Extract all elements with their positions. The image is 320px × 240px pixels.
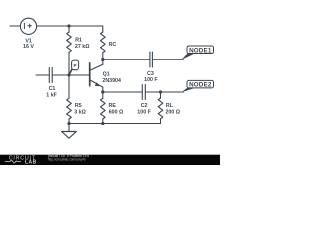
svg-text:R5: R5: [75, 103, 82, 109]
label R5 value: [74, 103, 86, 115]
wire C1 to Q1 base: [53, 74, 90, 76]
wire C2 to NODE2: [146, 91, 184, 93]
resistor R5: [67, 75, 72, 124]
svg-text:RC: RC: [109, 42, 117, 48]
svg-text:600 Ω: 600 Ω: [109, 109, 124, 115]
svg-text:P: P: [74, 63, 77, 68]
wire collector node to C3: [103, 59, 150, 61]
wire C3 to NODE1: [153, 59, 183, 61]
ground: [62, 124, 77, 139]
resistor RC: [101, 26, 106, 60]
svg-text:R1: R1: [75, 37, 82, 43]
svg-text:C2: C2: [141, 103, 148, 109]
label C1 value: [46, 86, 57, 98]
footer logo CircuitLab: [5, 155, 37, 165]
voltage source V1: [20, 18, 36, 34]
svg-text:3 kΩ: 3 kΩ: [74, 109, 86, 115]
svg-text:100 F: 100 F: [144, 77, 158, 83]
wire bottom rail: [69, 123, 161, 125]
label R1 value: [75, 37, 90, 50]
svg-text:RL: RL: [166, 103, 174, 109]
label V1 value: [23, 39, 34, 51]
node flag NODE2: [181, 80, 213, 92]
svg-text:200 Ω: 200 Ω: [165, 109, 180, 115]
wire V1 left stub: [10, 25, 20, 27]
svg-text:NODE1: NODE1: [189, 47, 212, 54]
resistor RE: [101, 92, 106, 124]
label Q1 value: [102, 72, 121, 84]
svg-text:1 kF: 1 kF: [46, 93, 57, 99]
label C2 value: [137, 103, 151, 115]
svg-text:27 kΩ: 27 kΩ: [75, 44, 90, 50]
node flag NODE1: [181, 46, 213, 60]
wire top rail V1 to RC: [37, 25, 103, 27]
svg-text:16 V: 16 V: [23, 44, 34, 50]
node junction ground: [67, 122, 70, 125]
label C3 value: [144, 71, 158, 83]
wire emitter to C2: [103, 91, 142, 93]
label RE value: [109, 103, 125, 115]
svg-text:http://circuitlab.com/cmq4h: http://circuitlab.com/cmq4h: [48, 158, 86, 162]
capacitor C1: [36, 68, 52, 83]
label RL value: [165, 103, 180, 115]
svg-text:RE: RE: [109, 103, 117, 109]
node emitter junction: [101, 90, 104, 93]
svg-text:C1: C1: [49, 86, 56, 92]
node junction RE bottom: [101, 122, 104, 125]
node base junction: [67, 73, 70, 76]
resistor RL: [158, 92, 163, 124]
svg-text:Q1: Q1: [103, 72, 110, 78]
footer bar: [0, 155, 220, 165]
transistor Q1: [90, 60, 103, 93]
node collector junction: [101, 58, 104, 61]
resistor R1: [67, 26, 72, 75]
svg-text:2N3904: 2N3904: [102, 78, 121, 84]
svg-text:LAB: LAB: [25, 159, 37, 165]
svg-text:100 F: 100 F: [137, 109, 151, 115]
capacitor C3: [150, 52, 153, 67]
node junction R1 top: [67, 24, 70, 27]
probe P: [69, 60, 79, 75]
node junction RL top: [159, 90, 162, 93]
svg-text:NODE2: NODE2: [189, 82, 212, 89]
capacitor C2: [142, 85, 145, 100]
